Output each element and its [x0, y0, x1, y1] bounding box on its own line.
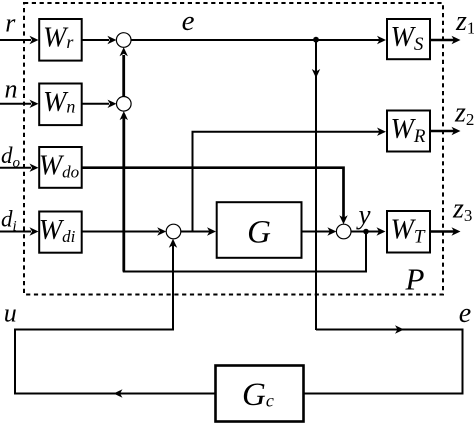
summing junction S2 (n + y)	[117, 97, 132, 112]
wire: S3 output into plant G	[181, 227, 216, 235]
wire: e bottom run right, down, into G_c	[304, 325, 463, 393]
block W_do	[39, 147, 82, 188]
wire: W_do output right then down into summing junction S4	[83, 168, 348, 225]
block W_S	[387, 19, 430, 59]
svg-text:WR: WR	[391, 114, 426, 147]
wire: G_c output u left, up, right and up into S3	[15, 239, 216, 398]
svg-text:e: e	[459, 298, 471, 329]
block G_c	[216, 366, 304, 422]
block W_T	[387, 211, 430, 253]
wire: input n into W_n	[0, 100, 39, 108]
node: junction dot on y line	[363, 229, 369, 235]
wire: W_r output to summing junction S1	[83, 36, 117, 44]
wire: S2 output up into S1	[120, 47, 128, 96]
svg-text:G: G	[247, 215, 271, 251]
node: junction dot on e line	[313, 37, 319, 43]
svg-text:z3: z3	[452, 194, 472, 226]
summing junction S3 (d_i + u)	[166, 224, 181, 239]
wire: W_S output z1	[431, 36, 461, 44]
block W_R	[387, 111, 430, 152]
wire: e from S1 to W_S	[131, 36, 386, 44]
summing junction S4 (G output + d_o)	[336, 224, 351, 239]
svg-text:y: y	[356, 200, 371, 230]
svg-text:Gc: Gc	[242, 377, 274, 413]
wire: y feedback down, left and up into S2	[124, 114, 366, 272]
svg-text:Wn: Wn	[43, 87, 75, 118]
svg-text:z2: z2	[454, 98, 474, 130]
wire: G output to summing junction S4	[303, 227, 337, 235]
svg-text:WT: WT	[391, 215, 426, 248]
svg-text:Wr: Wr	[43, 22, 74, 53]
svg-text:Wdo: Wdo	[39, 151, 79, 182]
block W_n	[39, 84, 81, 126]
svg-text:do: do	[1, 143, 21, 171]
wire: input d_i into W_di	[0, 227, 39, 235]
wire: input d_o into W_do	[0, 164, 39, 172]
wire: W_di output to summing junction S3	[83, 227, 167, 235]
block W_di	[39, 212, 82, 253]
svg-text:u: u	[4, 299, 17, 328]
wire: e branch down out of P	[312, 40, 320, 330]
block W_r	[39, 19, 81, 61]
svg-text:P: P	[405, 261, 425, 296]
summing junction S1 (r - feedback -> e)	[116, 33, 131, 48]
svg-text:e: e	[182, 5, 195, 37]
svg-text:n: n	[5, 75, 18, 104]
wire: W_T output z3	[431, 227, 461, 235]
svg-text:WS: WS	[391, 22, 424, 55]
wire: S4 output y into W_T	[351, 227, 386, 235]
block G	[217, 202, 302, 258]
wire: branch from G input up and right into W_R	[193, 128, 387, 232]
wire: input r into W_r	[0, 36, 39, 44]
svg-text:Wdi: Wdi	[39, 215, 76, 246]
svg-text:r: r	[5, 9, 16, 38]
wire: W_n output to summing junction S2	[83, 100, 117, 108]
svg-text:di: di	[1, 207, 17, 235]
wire: W_R output z2	[431, 127, 461, 135]
dashed boundary of generalized plant P	[24, 3, 443, 295]
svg-text:z1: z1	[455, 6, 474, 38]
